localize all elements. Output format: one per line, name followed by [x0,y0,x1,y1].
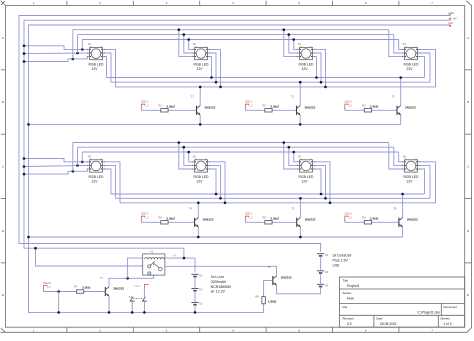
wire driver cell 1-3 base [345,109,365,111]
svg-text:3.3kΩ: 3.3kΩ [370,216,379,220]
wire supply tap row 2 pin3 [24,169,90,174]
wire supply tap row 1 pin3 [24,57,90,62]
svg-text:R5: R5 [263,215,267,219]
wire anode bus 1a [73,29,389,31]
net flag LED 2 [245,104,248,110]
wire driver cell 2-1 base [141,221,161,223]
wire relay coil pin 1 [128,258,143,278]
wire battery1 interconnects [194,277,196,289]
net flag LED 6 [345,216,348,222]
svg-text:T4: T4 [189,207,193,211]
wire collector T6 [402,194,404,218]
svg-text:+V: +V [173,254,176,257]
svg-text:1 2 3: 1 2 3 [134,285,140,288]
wire risers LED3 row 1 [284,30,300,57]
svg-text:3.3kΩ: 3.3kΩ [370,104,379,108]
wire ground bus row 1 [29,123,401,125]
svg-text:Project1: Project1 [347,284,360,288]
RGB LED D6 [195,160,208,172]
wire cathode drops LED2 row 1 [207,57,211,78]
svg-text:File: File [343,305,348,309]
RGB LED D4 [405,47,418,59]
transistor T8 2N2222 [272,276,273,285]
net flag LED 4 [141,216,144,222]
wire risers LED2 row 1 [179,30,195,57]
wire cathode drops LED4 row 2 [417,169,424,194]
wire emitter T6 [402,227,404,237]
net flag LED 1 [141,104,144,110]
wire supply tap row 1 pin1 [24,46,90,50]
wire net +12V-B: top bus 2, left vertical, run to relay output [24,20,449,258]
svg-text:NCR18650B: NCR18650B [211,285,232,289]
svg-text:1 of 2: 1 of 2 [443,322,451,326]
svg-text:T8: T8 [267,265,271,269]
title block [340,277,465,327]
wire relay NC contact to T8 collector [165,266,277,276]
RGB LED D5 [90,160,103,172]
power flag +12V [447,15,450,17]
transistor T3 2N2222 [396,106,397,115]
svg-text:T7: T7 [100,276,104,280]
RGB LED D8 [405,160,418,172]
svg-text:3.3kΩ: 3.3kΩ [166,104,175,108]
svg-text:1.8kΩ: 1.8kΩ [268,300,277,304]
wire collector T3 [400,78,402,106]
wire base Q7 [44,291,77,293]
svg-text:E: E [467,293,469,297]
wire cathode drops LED1 row 2 [102,169,111,194]
transistor T5 2N2222 [296,218,297,227]
svg-text:12V: 12V [301,179,308,183]
wire riser LED1 row 2 b [77,147,79,165]
svg-text:2N2222: 2N2222 [405,105,416,109]
svg-text:Document: Document [443,305,457,309]
wire net +12V-A: top bus 1, left vertical, run to battery2 + [19,16,447,252]
wire emitter T2 [299,115,301,124]
svg-text:A: A [467,36,469,40]
wire cathode bus 1b [111,81,430,83]
svg-text:5.0: 5.0 [347,322,352,326]
wire driver cell 1-1 base [141,109,161,111]
wire battery2 interconnects [320,256,322,271]
resistor R3 3.3k&#937; [364,109,371,112]
wire riser LED1 row 2 a [72,143,74,172]
wire riser LED1 row 1 b [77,35,79,53]
wire collector T2 [299,82,301,105]
wire cathode drops LED1 row 1 [102,57,106,78]
wire driver cell 2-2 base [245,221,264,223]
resistor R1 3.3k&#937; [161,109,168,112]
svg-text:B: B [467,100,469,104]
power flag GND [447,25,450,27]
wire cathode drops LED2 row 2 [207,169,216,194]
net flag RELAY [44,285,47,291]
transistor T8 base chain [264,281,273,297]
net flag LED 5 [245,216,248,222]
wire emitter T7 to ground rail [108,296,110,312]
wire anode bus 1c [82,39,398,41]
svg-text:12V: 12V [406,179,413,183]
transistor T4 2N2222 [194,218,195,227]
wire net GND: top bus 3, left vertical, bottom ground rail [29,25,448,312]
wire relay output to battery1 + [165,258,195,272]
svg-text:3.3kΩ: 3.3kΩ [166,216,175,220]
wire collector T7 to relay coil [109,275,154,287]
wire supply tap row 1 pin2 [24,52,90,55]
net flag LED 3 [345,104,348,110]
svg-text:R4: R4 [159,215,163,219]
svg-text:GND: GND [448,23,453,25]
svg-text:3.3kΩ: 3.3kΩ [270,216,279,220]
resistor R8 1.8k vertical [262,297,265,304]
svg-text:2N2222: 2N2222 [205,105,216,109]
svg-text:2N2222: 2N2222 [305,105,316,109]
wire emitter T1 [199,115,201,124]
wire cathode bus 2a [111,193,425,195]
battery G1 G2 G3 Li-ion stack [191,273,198,275]
svg-text:R6: R6 [362,215,366,219]
wire anode bus 2c [82,151,398,153]
svg-text:RELAY: RELAY [43,282,51,285]
svg-text:3200mAh: 3200mAh [211,280,226,284]
wire cathode drops LED4 row 1 [417,57,424,78]
transistor T2 2N2222 [296,106,297,115]
svg-text:12V: 12V [196,179,203,183]
svg-text:2N2222: 2N2222 [305,217,316,221]
resistor R2 3.3k&#937; [265,109,272,112]
svg-text:12V: 12V [406,67,413,71]
wire riser LED1 row 2 c [81,152,83,162]
wire ground bus row 2 [29,236,403,238]
svg-text:3x Li-ion: 3x Li-ion [211,275,225,279]
wire cathode bus 1c [116,86,436,88]
svg-text:LED 3: LED 3 [345,101,353,104]
svg-text:T2: T2 [291,95,295,99]
wire collector T5 [299,198,301,217]
svg-text:3x DuraCell: 3x DuraCell [333,254,352,258]
svg-text:2N2222: 2N2222 [281,276,292,280]
wire collector T4 [197,203,199,218]
svg-text:Huw: Huw [347,297,354,301]
svg-text:2N2222: 2N2222 [407,217,418,221]
battery G4 G5 G6 DuraCell stack [317,253,324,255]
svg-text:2N2222: 2N2222 [203,217,214,221]
wire riser LED1 row 1 a [72,30,74,59]
svg-text:LED 4: LED 4 [141,213,149,216]
wire anode bus 2b [78,146,394,148]
svg-text:12V: 12V [196,67,203,71]
svg-text:C:\Project1.dsn: C:\Project1.dsn [417,311,440,315]
wire risers LED4 row 1 [389,30,405,57]
svg-text:K1: K1 [150,249,154,253]
svg-text:T6: T6 [393,207,397,211]
wire driver cell 1-2 base [245,109,264,111]
svg-text:26.08.2024: 26.08.2024 [380,322,397,326]
svg-text:3.3kΩ: 3.3kΩ [82,286,91,290]
wire cathode bus 1a [107,77,425,79]
wire collector T1 [199,87,201,106]
svg-text:R3: R3 [362,103,366,107]
transistor T7 2N2222 [105,287,106,296]
svg-text:+12V: +12V [448,11,454,15]
wire relay contact input [36,248,143,266]
wire supply tap row 2 pin2 [24,165,90,166]
wire cathode drops LED3 row 1 [312,57,316,78]
transistor T6 2N2222 [398,218,399,227]
wire cathode drops LED3 row 2 [312,169,321,194]
svg-text:R8: R8 [255,295,259,299]
svg-text:+5V: +5V [452,17,457,20]
svg-text:R1: R1 [159,103,163,107]
svg-text:Author: Author [343,291,352,295]
wire risers LED2 row 2 [179,143,195,170]
svg-text:12V: 12V [91,179,98,183]
resistor R5 3.3k&#937; [265,221,272,224]
wire cathode bus 2c [120,202,436,204]
svg-text:Date: Date [376,317,383,321]
wire cathode bus 2b [116,197,431,199]
wire emitter T8 to battery2 - [277,285,321,294]
wire emitter T5 [299,227,301,237]
resistor R4 3.3k&#937; [161,221,168,224]
wire pulldown to ground [58,292,60,313]
svg-text:2N2222: 2N2222 [113,287,124,291]
wire emitter T3 [400,115,402,124]
wire anode bus 1b [78,34,394,36]
svg-text:Plus 1.5V: Plus 1.5V [333,258,349,262]
svg-text:3.3kΩ: 3.3kΩ [270,104,279,108]
power flag +5V [449,17,450,20]
svg-text:at: 12.3V: at: 12.3V [211,290,226,294]
svg-text:A: A [2,36,4,40]
net flag switch 1 2 3 [143,288,145,296]
wire riser LED1 row 1 c [81,40,83,50]
RGB LED D2 [195,47,208,59]
svg-text:LED 2: LED 2 [245,101,253,104]
svg-text:Sheets: Sheets [440,317,450,321]
svg-text:T3: T3 [392,95,396,99]
svg-text:R2: R2 [263,103,267,107]
wire supply tap row 2 pin1 [24,159,90,162]
wire anode bus 2a [73,142,389,144]
RGB LED D1 [90,47,103,59]
svg-text:Revision: Revision [343,317,355,321]
RGB LED D3 [300,47,313,59]
wire risers LED3 row 2 [284,143,300,170]
svg-text:Title: Title [343,278,349,282]
transistor T1 2N2222 [196,106,197,115]
svg-text:LED 6: LED 6 [345,213,353,216]
svg-text:12V: 12V [301,67,308,71]
svg-text:LED 1: LED 1 [141,101,149,104]
RGB LED D7 [300,160,313,172]
svg-text:E: E [2,293,4,297]
svg-text:B: B [2,100,4,104]
wire driver cell 2-3 base [345,221,365,223]
svg-text:LED 5: LED 5 [245,213,253,216]
svg-text:T5: T5 [291,207,295,211]
wire emitter T4 [197,227,199,237]
relay K1 [143,254,165,275]
svg-text:12V: 12V [91,67,98,71]
svg-text:T1: T1 [191,95,195,99]
svg-text:R7: R7 [74,285,78,289]
resistor R7 3.3k&#937; [77,290,84,293]
wire risers LED4 row 2 [389,143,405,170]
svg-text:LR6: LR6 [333,263,340,267]
resistor R6 3.3k&#937; [364,221,371,224]
